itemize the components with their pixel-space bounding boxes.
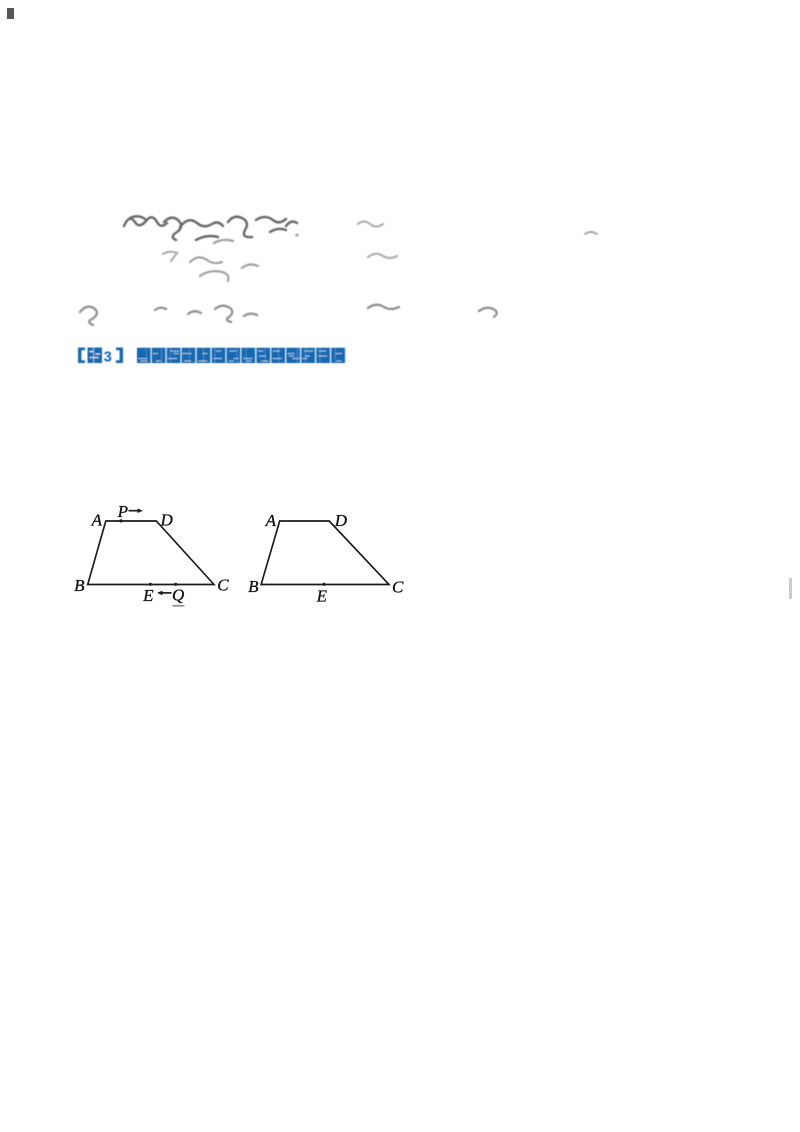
- svg-text:A: A: [265, 511, 277, 530]
- svg-text:E: E: [142, 586, 154, 605]
- svg-text:Q: Q: [172, 586, 184, 605]
- svg-text:E: E: [316, 587, 328, 606]
- svg-text:C: C: [392, 578, 404, 597]
- svg-text:A: A: [91, 511, 103, 530]
- svg-text:P: P: [117, 502, 128, 521]
- svg-text:C: C: [217, 576, 229, 595]
- svg-text:D: D: [160, 511, 174, 530]
- svg-text:D: D: [334, 511, 348, 530]
- svg-text:B: B: [74, 576, 85, 595]
- svg-text:B: B: [248, 577, 259, 596]
